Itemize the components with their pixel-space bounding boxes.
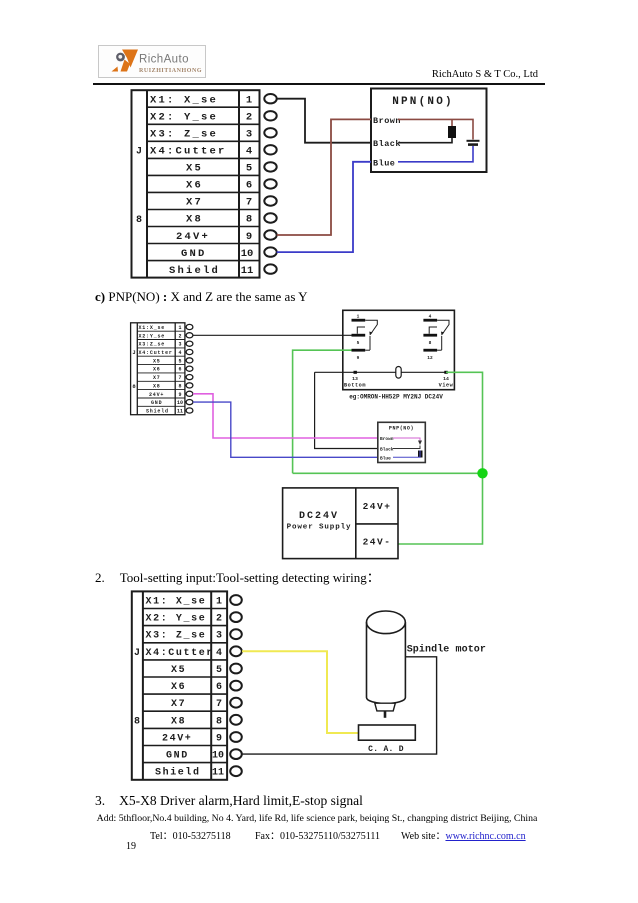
- spindle chuck: [375, 703, 396, 711]
- wire magenta 24V+ pin9 to PNP brown: [193, 394, 378, 438]
- svg-text:8: 8: [429, 340, 432, 346]
- svg-text:X1: X_se: X1: X_se: [146, 597, 207, 608]
- PNP sensor box: [378, 422, 426, 462]
- svg-text:X2:Y_se: X2:Y_se: [139, 333, 166, 339]
- svg-text:24V+: 24V+: [149, 392, 164, 398]
- svg-text:7: 7: [216, 699, 222, 710]
- svg-text:X6: X6: [153, 367, 161, 373]
- svg-text:X2: Y_se: X2: Y_se: [146, 614, 207, 625]
- svg-text:11: 11: [212, 768, 224, 779]
- svg-text:GND: GND: [181, 248, 207, 260]
- svg-text:GND: GND: [166, 751, 189, 762]
- svg-text:4: 4: [246, 146, 252, 158]
- svg-text:9: 9: [216, 734, 222, 745]
- svg-text:X3:Z_se: X3:Z_se: [139, 342, 166, 348]
- svg-text:Bottom: Bottom: [344, 383, 366, 389]
- relay contact pins 1,5,9: [352, 314, 378, 362]
- svg-text:10: 10: [177, 400, 183, 406]
- wire black pin1 to sensor: [277, 99, 371, 143]
- small terminal labels: [139, 325, 173, 415]
- terminal labels: [146, 597, 214, 779]
- DC24V power supply box: [283, 488, 398, 559]
- svg-text:14: 14: [443, 376, 449, 382]
- svg-text:Spindle motor: Spindle motor: [407, 644, 486, 656]
- svg-text:X5: X5: [186, 163, 203, 175]
- green junction node: [477, 468, 487, 478]
- sensor internal: Blue lead: [373, 146, 473, 169]
- svg-text:8: 8: [136, 215, 142, 226]
- svg-text:2: 2: [216, 614, 222, 625]
- svg-text:5: 5: [357, 340, 360, 346]
- sensor internal: capacitor symbol: [467, 141, 480, 145]
- terminal block J8 table: [132, 90, 260, 277]
- svg-text:Black: Black: [373, 139, 401, 149]
- svg-text:12: 12: [427, 355, 433, 361]
- svg-text:2: 2: [246, 112, 252, 124]
- svg-text:13: 13: [352, 376, 358, 382]
- svg-text:DC24V: DC24V: [299, 511, 339, 522]
- sensor internal: Brown lead: [373, 116, 473, 140]
- svg-text:X1: X_se: X1: X_se: [150, 95, 218, 107]
- svg-text:2: 2: [178, 333, 181, 339]
- svg-text:10: 10: [241, 248, 254, 260]
- pin circles: [230, 595, 242, 776]
- svg-text:Blue: Blue: [373, 159, 395, 169]
- svg-text:X4:Cutter: X4:Cutter: [150, 146, 227, 158]
- svg-text:7: 7: [246, 197, 252, 209]
- wire brown 24V+ pin9 to sensor: [277, 119, 371, 235]
- svg-text:11: 11: [177, 409, 183, 415]
- DIAGRAM 2 : PNP relay wiring: [120, 300, 520, 565]
- svg-text:X7: X7: [186, 197, 203, 209]
- svg-text:6: 6: [178, 367, 181, 373]
- wire green relay pin9 down: [293, 350, 352, 473]
- spindle motor body: [367, 611, 406, 704]
- sensor internal: Black lead: [373, 138, 452, 149]
- svg-text:X1:X_se: X1:X_se: [139, 325, 166, 331]
- svg-text:X8: X8: [153, 383, 161, 389]
- svg-text:24V-: 24V-: [363, 537, 392, 548]
- svg-text:C. A. D: C. A. D: [368, 745, 404, 754]
- svg-text:Power Supply: Power Supply: [287, 524, 352, 532]
- svg-text:5: 5: [216, 665, 222, 676]
- footer address: [94, 813, 540, 824]
- svg-text:View: View: [439, 383, 454, 389]
- svg-text:GND: GND: [151, 400, 162, 406]
- svg-text:X7: X7: [153, 375, 161, 381]
- PNP internal: Black lead: [380, 446, 420, 453]
- wire yellow pin4 to CAD: [242, 651, 359, 733]
- svg-text:J: J: [132, 349, 135, 356]
- svg-text:PNP(NO): PNP(NO): [389, 426, 414, 432]
- tool bit: [384, 711, 387, 718]
- sensor internal: load resistor: [448, 126, 456, 138]
- pin numbers: [212, 597, 224, 779]
- svg-text:7: 7: [178, 375, 181, 381]
- C.A.D block: [359, 725, 416, 740]
- svg-text:1: 1: [246, 95, 252, 107]
- header company name: [330, 69, 538, 80]
- svg-text:X8: X8: [171, 716, 186, 727]
- svg-text:24V+: 24V+: [176, 231, 210, 243]
- DIAGRAM 3 : tool-setting wiring: [120, 585, 520, 785]
- svg-text:X3: Z_se: X3: Z_se: [150, 129, 218, 141]
- caption 2. tool-setting: [95, 567, 380, 586]
- svg-text:J: J: [134, 648, 140, 659]
- terminal block J8 table: [132, 591, 227, 779]
- svg-text:X5: X5: [153, 358, 161, 364]
- PNP internal: Brown lead: [380, 436, 420, 442]
- logo RichAuto: [98, 45, 206, 78]
- svg-text:3: 3: [246, 129, 252, 141]
- wire black relay pin13 to PNP black: [315, 372, 378, 448]
- svg-text:Shield: Shield: [146, 409, 169, 415]
- svg-text:11: 11: [241, 265, 254, 277]
- svg-text:X6: X6: [186, 180, 203, 192]
- footer page number: [126, 841, 136, 852]
- svg-text:RUIZHITIANHONG: RUIZHITIANHONG: [139, 68, 202, 74]
- svg-text:X2: Y_se: X2: Y_se: [150, 112, 218, 124]
- svg-text:10: 10: [212, 751, 224, 762]
- svg-text:X5: X5: [171, 665, 186, 676]
- wire blue GND pin10 to PNP blue: [193, 402, 378, 457]
- svg-text:Blue: Blue: [380, 456, 391, 462]
- svg-text:24V+: 24V+: [363, 501, 392, 512]
- svg-text:5: 5: [178, 358, 181, 364]
- PNP internal: Blue lead: [380, 451, 420, 462]
- DIAGRAM 1 : NPN sensor wiring: [120, 85, 500, 290]
- svg-text:24V+: 24V+: [162, 734, 192, 745]
- caption 3: [95, 793, 363, 809]
- svg-text:X3: Z_se: X3: Z_se: [146, 631, 207, 642]
- svg-text:eg:OMRON-HH52P MY2NJ DC24V: eg:OMRON-HH52P MY2NJ DC24V: [349, 394, 443, 401]
- wire green relay pin14 down to 24Vminus: [398, 372, 483, 544]
- pin numbers 1-11: [241, 95, 254, 278]
- pin circles: [264, 94, 276, 274]
- svg-text:NPN(NO): NPN(NO): [392, 96, 454, 108]
- svg-text:8: 8: [178, 383, 181, 389]
- svg-text:5: 5: [246, 163, 252, 175]
- PNP internal: load: [418, 451, 423, 458]
- svg-text:4: 4: [429, 314, 432, 320]
- PNP internal: arrow: [418, 441, 422, 446]
- svg-text:1: 1: [178, 325, 181, 331]
- svg-text:9: 9: [357, 355, 360, 361]
- relay coil line pins 13,14: [315, 367, 454, 389]
- svg-text:8: 8: [216, 716, 222, 727]
- terminal block labels: [150, 95, 227, 278]
- svg-text:X4:Cutter: X4:Cutter: [139, 350, 173, 356]
- svg-text:4: 4: [216, 648, 222, 659]
- svg-text:Brown: Brown: [380, 436, 394, 442]
- small pin circles: [186, 324, 193, 413]
- svg-text:9: 9: [246, 231, 252, 243]
- svg-text:X8: X8: [186, 214, 203, 226]
- svg-text:Shield: Shield: [155, 767, 201, 779]
- svg-text:1: 1: [216, 597, 222, 608]
- wire black pin2 to relay pin5: [193, 334, 352, 336]
- svg-text:8: 8: [246, 214, 252, 226]
- svg-text:4: 4: [178, 350, 181, 356]
- svg-text:X4:Cutter: X4:Cutter: [146, 648, 214, 659]
- caption c) PNP: [95, 289, 308, 305]
- svg-text:9: 9: [178, 392, 181, 398]
- svg-text:Shield: Shield: [169, 265, 220, 277]
- relay contact pins 4,8,12: [423, 314, 449, 362]
- svg-text:1: 1: [357, 314, 360, 320]
- wire black GND pin10 to spindle: [242, 657, 437, 754]
- wire blue GND pin10 to sensor: [277, 162, 371, 252]
- svg-text:J: J: [136, 147, 142, 158]
- relay box U1: [343, 310, 455, 389]
- small terminal block J8 table: [131, 323, 185, 415]
- wire green junction horizontal: [293, 472, 483, 474]
- svg-text:3: 3: [178, 342, 181, 348]
- svg-text:8: 8: [134, 716, 140, 727]
- svg-text:X7: X7: [171, 699, 186, 710]
- svg-text:6: 6: [216, 682, 222, 693]
- svg-text:3: 3: [216, 631, 222, 642]
- svg-text:Brown: Brown: [373, 116, 401, 126]
- svg-text:X6: X6: [171, 682, 186, 693]
- NPN sensor box: [371, 89, 487, 173]
- svg-text:6: 6: [246, 180, 252, 192]
- footer contacts: [0, 826, 638, 828]
- svg-text:8: 8: [132, 383, 136, 390]
- header rule: [93, 83, 545, 85]
- small pin numbers: [177, 325, 183, 415]
- svg-text:RichAuto: RichAuto: [139, 54, 189, 66]
- svg-text:Black: Black: [380, 447, 394, 453]
